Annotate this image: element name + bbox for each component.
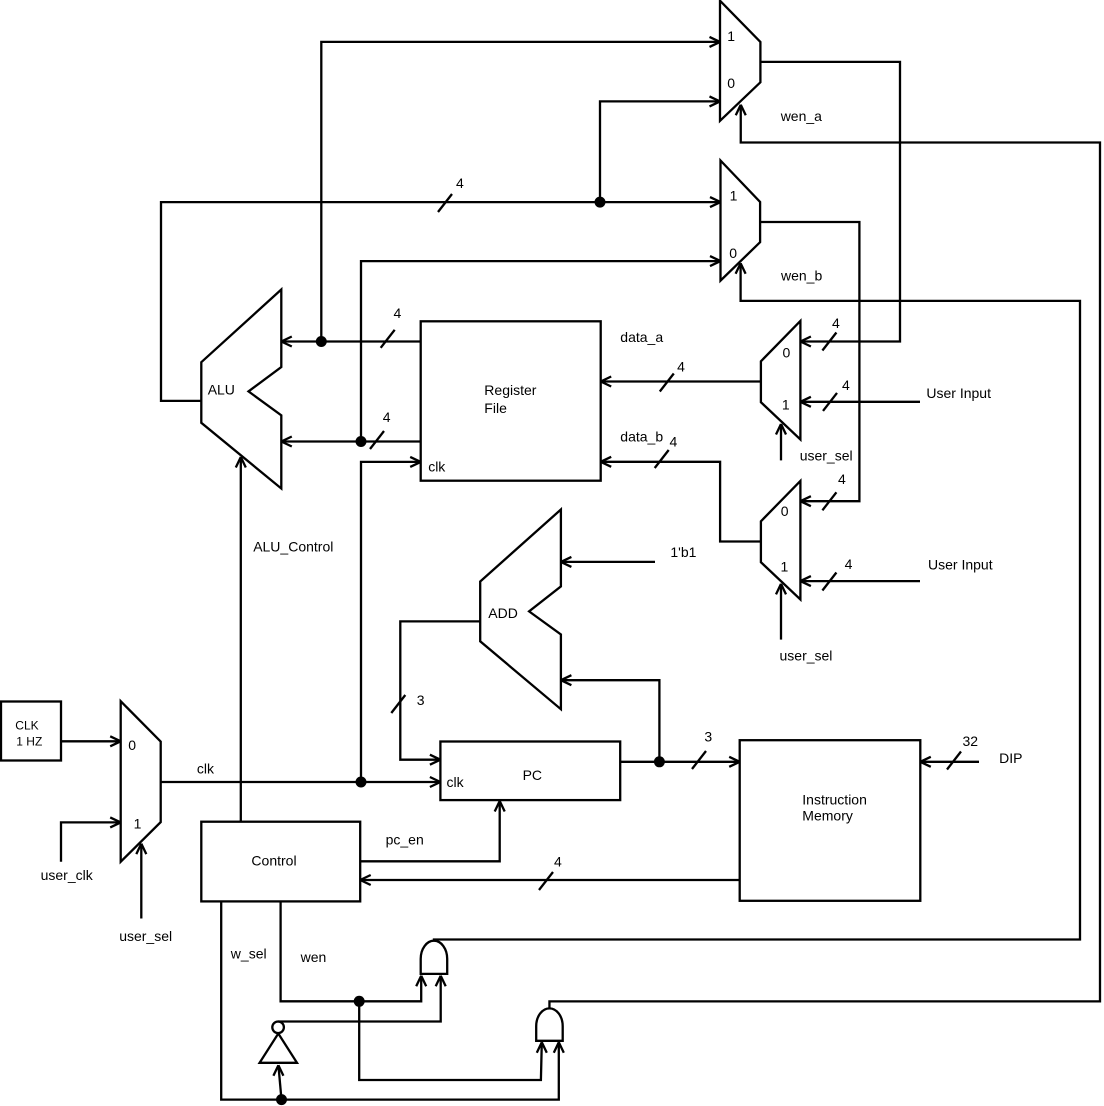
- wire user_sel to mux A select: [776, 424, 786, 460]
- svg-text:user_sel: user_sel: [800, 448, 853, 464]
- wire clk (clk mux output to PC): [161, 777, 441, 787]
- wire PC output to instruction memory: [620, 757, 740, 767]
- svg-text:Instruction: Instruction: [802, 792, 867, 808]
- bus slash 3 on PC output: [692, 729, 712, 769]
- wire instruction to control: [360, 875, 740, 885]
- svg-text:clk: clk: [447, 774, 465, 790]
- svg-text:CLK: CLK: [15, 719, 38, 733]
- bus slash 4 on instruction: [539, 854, 562, 890]
- svg-text:clk: clk: [197, 761, 215, 777]
- svg-text:ADD: ADD: [488, 605, 518, 621]
- svg-text:3: 3: [704, 729, 712, 745]
- svg-text:0: 0: [781, 503, 789, 519]
- svg-text:1 HZ: 1 HZ: [16, 735, 42, 749]
- program counter PC: [440, 742, 620, 801]
- svg-text:1: 1: [781, 558, 789, 574]
- svg-text:4: 4: [456, 175, 464, 191]
- svg-text:user_sel: user_sel: [119, 928, 172, 944]
- svg-text:wen: wen: [300, 949, 327, 965]
- svg-text:Memory: Memory: [802, 808, 853, 824]
- wire constant 1'b1 to ADD: [561, 557, 655, 567]
- wire wen from control to AND G1 input: [281, 901, 427, 1001]
- NOT gate (inverter on w_sel): [260, 1022, 297, 1063]
- wire wen_a select (from AND G2 output): [549, 105, 1100, 1009]
- bus slash 4 on data_b: [370, 409, 391, 449]
- junction clk node: [356, 777, 367, 788]
- junction wen node: [354, 996, 365, 1007]
- bus slash 4 on mux B input 1: [822, 556, 852, 591]
- svg-text:4: 4: [845, 556, 853, 572]
- wire DIP input to instruction memory: [920, 757, 979, 767]
- svg-text:0: 0: [783, 345, 791, 361]
- svg-text:4: 4: [838, 471, 846, 487]
- mux user_sel A (right upper): [761, 321, 801, 440]
- wire User Input to mux B input 1: [800, 576, 920, 586]
- svg-text:1: 1: [730, 188, 738, 204]
- wire NOT output to AND G1 input: [278, 976, 446, 1022]
- svg-text:4: 4: [842, 377, 850, 393]
- wire user_sel to clk mux select: [136, 844, 146, 919]
- wire mux B output to register file data_b: [601, 457, 761, 542]
- wire User Input to mux A input 1: [800, 397, 920, 407]
- bus slash 4 on mux B input 0: [822, 471, 846, 510]
- svg-text:1: 1: [727, 28, 735, 44]
- junction w_sel node: [276, 1094, 287, 1105]
- wire data_a (register file to ALU): [281, 337, 420, 347]
- svg-text:ALU_Control: ALU_Control: [253, 539, 333, 555]
- wire wen_a input 0 (from wen_b input1 node): [600, 96, 720, 202]
- bus slash 4 on wen_b input1: [438, 175, 464, 212]
- svg-text:w_sel: w_sel: [230, 946, 267, 962]
- wire wen_a input 1 (from data_a node): [321, 37, 720, 342]
- svg-text:Register: Register: [484, 382, 536, 398]
- svg-text:4: 4: [554, 854, 562, 870]
- wire ALU output feedback to wen_b input 1: [161, 197, 721, 401]
- bus slash 4 on data_a: [381, 305, 402, 348]
- svg-text:4: 4: [670, 433, 678, 449]
- svg-text:1: 1: [134, 816, 142, 832]
- svg-text:user_clk: user_clk: [41, 867, 94, 883]
- wire wen_b input 0 (from data_b node): [361, 256, 721, 441]
- svg-text:1'b1: 1'b1: [670, 544, 696, 560]
- svg-text:pc_en: pc_en: [386, 831, 424, 847]
- junction data_b node: [356, 436, 367, 447]
- wire wen branch to AND G2 input: [359, 1001, 547, 1080]
- ALU U1: [201, 290, 281, 489]
- wire w_sel branch to NOT gate: [273, 1065, 283, 1099]
- mux wen_a: [720, 1, 760, 121]
- wire wen_a output to mux A input 0: [760, 62, 900, 347]
- bus slash 3 on ADD output: [391, 692, 425, 713]
- svg-text:PC: PC: [523, 767, 542, 783]
- wire ALU_Control from control to ALU select: [236, 457, 246, 822]
- AND gate G2 (wen & w_sel): [536, 1008, 563, 1040]
- wire user_sel to mux B select: [776, 584, 786, 640]
- wire user_clk to clk mux input 1: [61, 817, 121, 861]
- junction data_a node: [316, 336, 327, 347]
- control unit: [201, 822, 360, 902]
- wire wen_b select (from AND G1 output): [434, 263, 1080, 940]
- svg-text:data_a: data_a: [620, 329, 663, 345]
- mux clk select: [121, 701, 161, 862]
- wire mux A output to register file data_a: [601, 377, 761, 387]
- bus slash 4 on mux A input 1: [823, 377, 850, 411]
- bus slash 32 on DIP: [947, 733, 978, 769]
- wire PC value to ADD input: [561, 675, 660, 762]
- bus slash 4 on mux A input 0: [822, 315, 840, 351]
- svg-text:ALU: ALU: [208, 381, 235, 397]
- wire ADD output to PC input: [400, 621, 480, 764]
- svg-text:4: 4: [832, 315, 840, 331]
- mux user_sel B (right lower): [761, 481, 801, 600]
- wire clk branch to register file: [361, 457, 421, 782]
- svg-text:4: 4: [383, 409, 391, 425]
- svg-text:1: 1: [782, 397, 790, 413]
- svg-text:User Input: User Input: [928, 556, 993, 572]
- svg-text:32: 32: [963, 733, 979, 749]
- svg-text:File: File: [484, 400, 507, 416]
- svg-text:DIP: DIP: [999, 750, 1022, 766]
- AND gate G1 (wen & ~w_sel): [421, 941, 448, 974]
- svg-text:wen_a: wen_a: [780, 108, 822, 124]
- register file: [421, 321, 601, 480]
- mux wen_b: [721, 161, 761, 281]
- svg-text:4: 4: [394, 305, 402, 321]
- wire pc_en control to PC: [360, 801, 505, 861]
- svg-text:clk: clk: [428, 459, 446, 475]
- wire data_b (register file to ALU): [281, 437, 420, 447]
- svg-text:3: 3: [417, 692, 425, 708]
- svg-text:0: 0: [729, 245, 737, 261]
- svg-text:Control: Control: [251, 852, 296, 868]
- svg-text:user_sel: user_sel: [780, 648, 833, 664]
- adder ADD: [480, 510, 561, 710]
- svg-text:User Input: User Input: [926, 385, 991, 401]
- svg-text:4: 4: [677, 359, 685, 375]
- bus slash 4 on reg write data_a: [660, 359, 685, 392]
- wire wen_b output to mux B input 0: [760, 222, 859, 506]
- junction PC output node: [654, 756, 665, 767]
- clock source CLK 1HZ: [1, 702, 61, 761]
- svg-text:data_b: data_b: [620, 429, 663, 445]
- svg-text:0: 0: [727, 75, 735, 91]
- bus slash 4 on reg write data_b: [655, 433, 678, 468]
- junction wen_b input1 / wen_a input0: [595, 197, 606, 208]
- wire w_sel from control to AND G2 input: [221, 901, 564, 1099]
- svg-text:0: 0: [128, 737, 136, 753]
- svg-text:wen_b: wen_b: [780, 268, 822, 284]
- instruction memory: [740, 740, 921, 901]
- wire CLK box to clk mux input 0: [61, 736, 121, 746]
